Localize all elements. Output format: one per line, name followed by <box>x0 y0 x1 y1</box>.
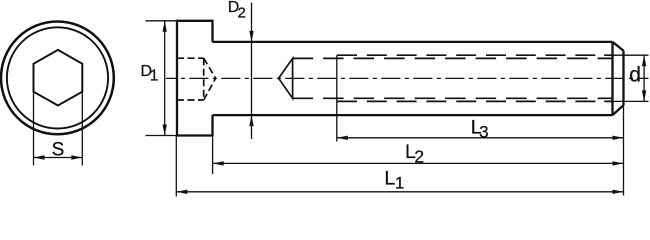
extension line L2 <box>212 136 214 175</box>
inner circle (head chamfer, front view) <box>7 27 108 128</box>
svg-text:1: 1 <box>395 174 404 193</box>
hidden hex socket top line <box>177 57 204 59</box>
extension line L1 <box>175 136 177 197</box>
end face <box>622 51 624 105</box>
svg-text:1: 1 <box>150 68 159 85</box>
extension line L3 <box>336 55 338 141</box>
screw head outline (side view) <box>177 21 213 136</box>
chamfer top diagonal <box>613 42 624 51</box>
dimension d extension bottom <box>604 100 649 102</box>
svg-text:d: d <box>629 64 641 87</box>
thread cone triangle <box>279 58 293 98</box>
dimension d extension top <box>604 54 649 56</box>
thread outer bottom dashed line <box>337 100 613 102</box>
svg-text:2: 2 <box>414 146 424 166</box>
hex socket (front view) <box>34 50 83 106</box>
dimension line D2 <box>249 3 253 140</box>
thread outer top dashed line <box>337 54 613 56</box>
svg-text:2: 2 <box>238 4 246 21</box>
svg-text:S: S <box>52 139 65 160</box>
label L1 <box>384 168 404 193</box>
dimension line d <box>642 55 646 101</box>
dimension line L3 <box>337 136 624 140</box>
thread inner top dashed line <box>293 57 613 59</box>
svg-text:3: 3 <box>479 123 488 142</box>
label L2 <box>405 141 424 166</box>
dimension line S <box>34 155 83 159</box>
dimension line L1 <box>176 190 623 194</box>
hidden hex socket end line <box>203 58 205 100</box>
dimension D1 extension bottom <box>146 135 177 137</box>
label D1 <box>141 63 159 85</box>
svg-text:L: L <box>384 168 395 190</box>
outer circle (head, front view) <box>1 22 114 135</box>
extension line S right <box>81 92 83 166</box>
hidden socket cone top <box>204 58 216 78</box>
centerline <box>166 77 649 79</box>
extension line S left <box>33 92 35 166</box>
dimension line L2 <box>213 161 624 165</box>
chamfer bottom diagonal <box>613 105 624 115</box>
hidden hex socket bottom line <box>177 99 204 101</box>
dimension line D1 <box>163 21 167 136</box>
label L3 <box>471 116 489 141</box>
dimension D1 extension top <box>146 20 177 22</box>
shank top edge <box>213 41 613 43</box>
thread inner bottom dashed line <box>293 97 613 99</box>
label D2 <box>228 0 246 21</box>
chamfer start line <box>611 42 613 115</box>
shank bottom edge <box>213 114 613 116</box>
hidden socket cone bottom <box>204 78 216 100</box>
extension line right end <box>623 105 625 195</box>
